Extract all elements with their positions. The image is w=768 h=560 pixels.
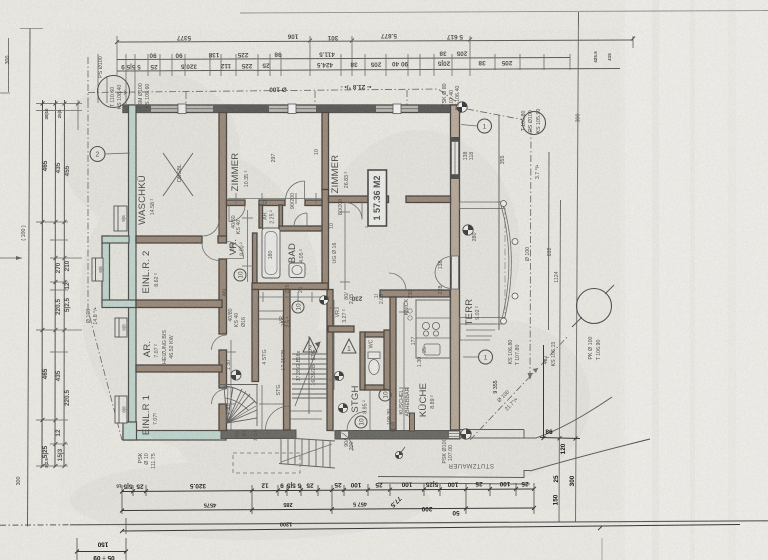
svg-text:05 ÷ 09: 05 ÷ 09: [93, 554, 115, 560]
svg-text:25: 25: [375, 481, 383, 488]
svg-text:25: 25: [334, 481, 342, 488]
svg-text:98: 98: [545, 428, 553, 435]
svg-text:25: 25: [306, 481, 314, 488]
svg-text:457 5: 457 5: [353, 501, 367, 507]
svg-text:5|5: 5|5: [123, 483, 132, 490]
svg-text:25: 25: [136, 482, 144, 489]
svg-text:15: 15: [116, 483, 122, 489]
svg-text:100: 100: [350, 481, 361, 488]
svg-text:1200: 1200: [280, 521, 292, 527]
svg-text:5|25: 5|25: [425, 481, 438, 488]
svg-text:320.5: 320.5: [190, 482, 206, 489]
svg-text:25: 25: [553, 475, 560, 483]
svg-text:150: 150: [97, 541, 108, 548]
svg-text:150: 150: [553, 494, 560, 505]
svg-text:5 5|5: 5 5|5: [286, 481, 301, 488]
svg-text:9: 9: [280, 482, 284, 489]
svg-text:50: 50: [452, 509, 460, 516]
svg-text:120: 120: [560, 443, 567, 454]
svg-text:25: 25: [475, 480, 483, 487]
svg-text:100: 100: [401, 481, 412, 488]
svg-text:9 355: 9 355: [493, 380, 499, 393]
svg-text:25: 25: [521, 480, 529, 487]
svg-text:4575: 4575: [204, 502, 216, 508]
svg-text:12: 12: [261, 482, 269, 489]
svg-text:100: 100: [499, 480, 510, 487]
svg-text:285: 285: [283, 501, 292, 507]
svg-text:300: 300: [569, 475, 576, 486]
svg-text:100: 100: [447, 480, 458, 487]
svg-text:200: 200: [421, 505, 432, 512]
